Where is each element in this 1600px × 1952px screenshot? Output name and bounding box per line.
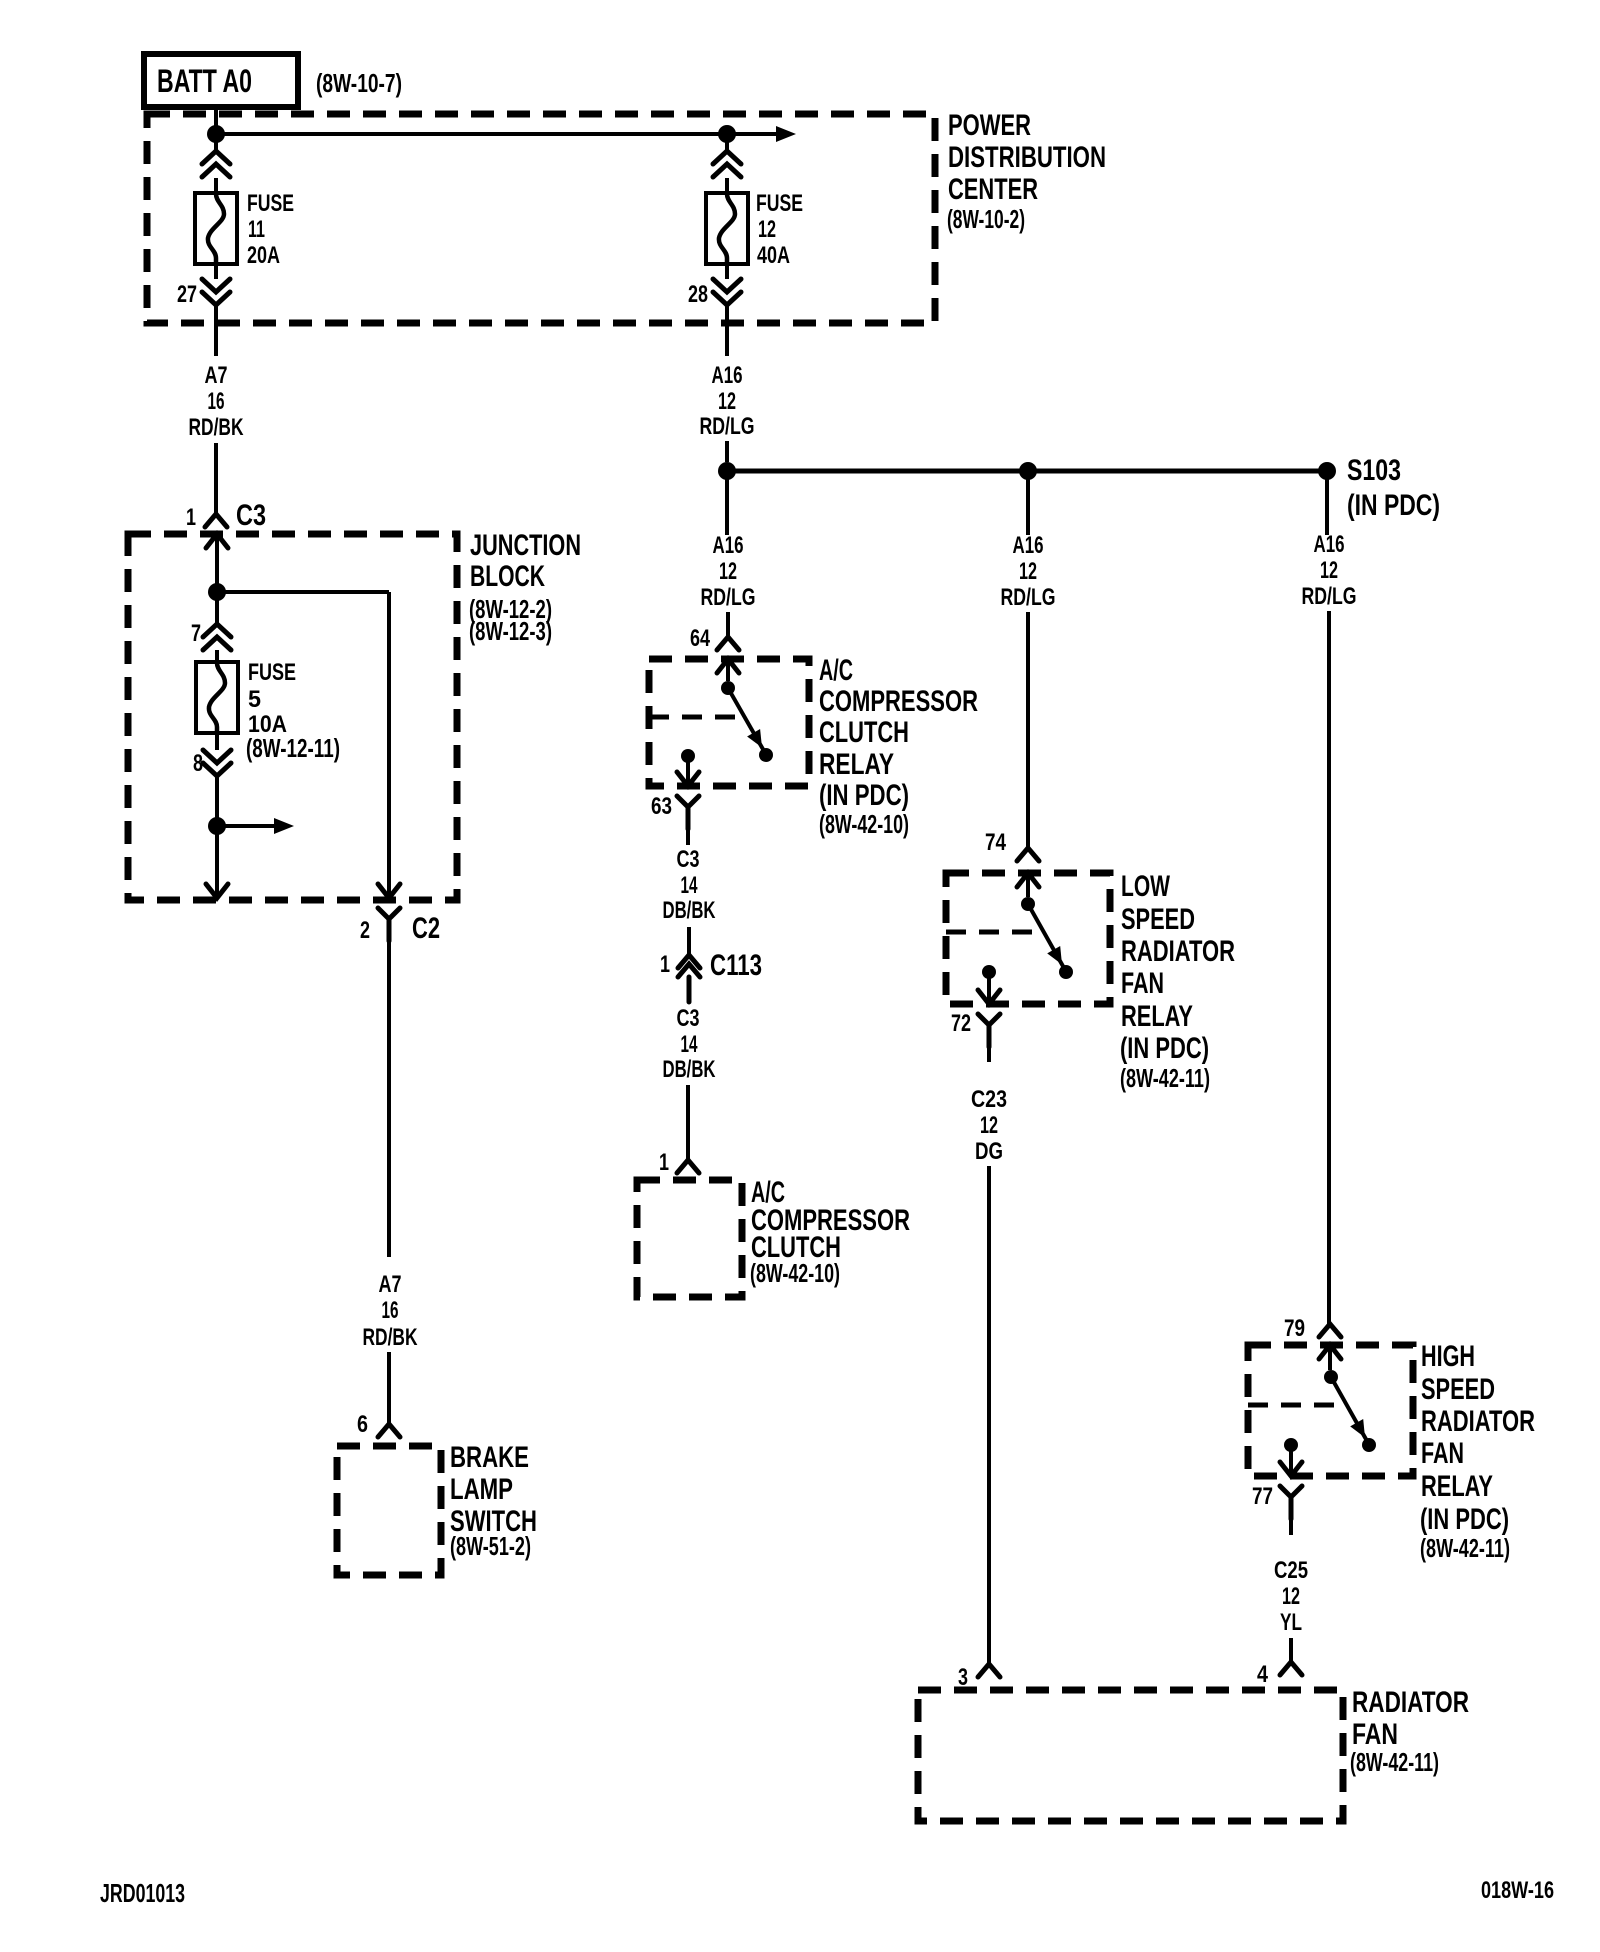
A/C compressor clutch box: [637, 1180, 742, 1297]
fuse F12 40A: [706, 193, 748, 264]
fuse F5 10A: [196, 662, 238, 733]
svg-text:SPEED: SPEED: [1121, 903, 1195, 936]
node junction feed to fuse 12: [718, 125, 736, 143]
pin 63 label: [651, 793, 672, 820]
pin 28 label: [688, 281, 708, 308]
relay pin 79 entry arrow: [1319, 1345, 1341, 1370]
node fused output tap: [208, 817, 226, 835]
svg-text:(8W-42-11): (8W-42-11): [1120, 1063, 1210, 1093]
svg-text:A7: A7: [205, 362, 228, 389]
svg-text:POWER: POWER: [948, 109, 1031, 142]
pin 27 label: [177, 281, 197, 308]
pin 7 label: [191, 620, 201, 647]
svg-text:RELAY: RELAY: [819, 748, 894, 781]
pin 7 chevrons: [203, 624, 231, 650]
wire feed to fuse 5: [215, 592, 219, 624]
svg-text:12: 12: [719, 558, 737, 585]
connector pin 72 half: [978, 1014, 1000, 1047]
svg-text:(8W-42-10): (8W-42-10): [819, 809, 909, 839]
svg-text:(8W-12-11): (8W-12-11): [246, 733, 340, 763]
svg-text:20A: 20A: [247, 242, 280, 269]
svg-text:FUSE: FUSE: [756, 190, 803, 217]
wire DG to radiator fan pin 3: [987, 1166, 991, 1664]
svg-text:HIGH: HIGH: [1421, 1340, 1475, 1373]
svg-text:A7: A7: [379, 1271, 402, 1298]
svg-text:12: 12: [758, 216, 776, 243]
svg-text:4: 4: [1257, 1661, 1269, 1688]
wire BATT A0 to PDC bus: [214, 107, 218, 134]
svg-text:DB/BK: DB/BK: [663, 1056, 716, 1083]
svg-text:COMPRESSOR: COMPRESSOR: [819, 685, 978, 718]
connector pin 63 half: [677, 796, 699, 829]
wire label C25 12 YL: [1274, 1557, 1308, 1636]
svg-text:5: 5: [248, 686, 261, 713]
svg-text:SPEED: SPEED: [1421, 1373, 1495, 1406]
svg-text:BLOCK: BLOCK: [470, 560, 545, 593]
radiator fan box: [918, 1690, 1343, 1821]
wire label A16 12 RD/LG branch 3: [1302, 531, 1357, 610]
svg-text:YL: YL: [1280, 1609, 1302, 1636]
high speed relay common contact: [1324, 1370, 1338, 1384]
wire to relay pin 74: [1026, 612, 1030, 848]
pin 2 label: [360, 917, 370, 944]
svg-text:A/C: A/C: [819, 654, 853, 687]
svg-text:40A: 40A: [757, 242, 790, 269]
svg-text:DISTRIBUTION: DISTRIBUTION: [948, 141, 1106, 174]
svg-text:LAMP: LAMP: [450, 1473, 513, 1506]
wire tap down to block edge: [206, 826, 228, 898]
junction block box: [128, 534, 457, 900]
svg-text:(8W-42-11): (8W-42-11): [1420, 1533, 1510, 1563]
svg-text:1: 1: [186, 504, 196, 531]
svg-text:(IN PDC): (IN PDC): [1420, 1503, 1509, 1536]
svg-text:C25: C25: [1274, 1557, 1308, 1584]
wire YL to radiator fan pin 4: [1289, 1638, 1293, 1662]
wire fuse 12 to pin 28: [725, 264, 729, 279]
svg-text:CENTER: CENTER: [948, 173, 1038, 206]
svg-text:RD/LG: RD/LG: [701, 584, 756, 611]
connector C3 label: [236, 499, 266, 532]
svg-text:RD/BK: RD/BK: [363, 1324, 418, 1351]
fuse 5 value label: [246, 659, 340, 763]
splice S103 label: [1347, 454, 1440, 522]
radiator fan pin 3 connector: [978, 1664, 1000, 1677]
wire label A16 12 RD/LG branch 2: [1001, 532, 1056, 611]
battery feed node BATT A0: [144, 54, 298, 107]
wire A16 to splice bus: [725, 441, 729, 462]
svg-text:28: 28: [688, 281, 708, 308]
connector C2 pin 2 half: [378, 908, 400, 941]
connector C2 label: [412, 912, 440, 945]
pin 6 label: [357, 1411, 368, 1438]
svg-text:1: 1: [659, 1149, 669, 1176]
svg-text:RELAY: RELAY: [1421, 1470, 1493, 1503]
low speed radiator fan relay box: [946, 873, 1110, 1004]
svg-text:(8W-42-10): (8W-42-10): [750, 1258, 840, 1288]
svg-text:1: 1: [660, 951, 670, 978]
high speed relay switch blade: [1331, 1377, 1367, 1441]
fuse F11 20A: [195, 193, 237, 264]
radiator fan pin 4 connector: [1280, 1662, 1302, 1675]
high speed radiator fan relay box: [1248, 1345, 1413, 1476]
svg-text:12: 12: [1019, 558, 1037, 585]
pin 64 label: [690, 625, 710, 652]
svg-text:C23: C23: [971, 1086, 1007, 1113]
relay pin 74 connector half: [1017, 848, 1039, 861]
wire chevron to fuse 11: [214, 178, 218, 193]
svg-text:(8W-51-2): (8W-51-2): [450, 1531, 531, 1561]
svg-text:77: 77: [1252, 1483, 1273, 1510]
high speed relay divider: [1248, 1403, 1342, 1408]
svg-text:14: 14: [681, 872, 698, 899]
svg-text:2: 2: [360, 917, 370, 944]
drawing number JRD01013: [100, 1878, 185, 1908]
pin 28 chevrons: [713, 279, 741, 305]
wire pin 27 out of PDC: [214, 305, 218, 356]
svg-text:FUSE: FUSE: [248, 659, 296, 686]
relay coil/contact divider: [649, 715, 747, 720]
svg-text:RELAY: RELAY: [1121, 1000, 1193, 1033]
svg-text:JRD01013: JRD01013: [100, 1878, 185, 1908]
svg-text:(8W-42-11): (8W-42-11): [1350, 1747, 1439, 1777]
wire fuse 11 to pin 27: [214, 264, 218, 279]
splice bus wire S103: [727, 469, 1327, 474]
wire pin 8 to internal node: [215, 776, 219, 826]
wire DB/BK to C113: [687, 927, 691, 955]
svg-text:RD/LG: RD/LG: [1001, 584, 1056, 611]
connector C113: [678, 955, 700, 1002]
low speed radiator fan relay label: [1120, 870, 1235, 1093]
svg-text:11: 11: [248, 216, 265, 243]
power distribution center box: [147, 114, 935, 323]
connector chevrons above fuse 12: [713, 151, 741, 177]
wire junction block internal branch: [217, 592, 389, 879]
low speed relay divider: [946, 930, 1034, 935]
pin 3 label: [958, 1664, 968, 1691]
pin 8 chevrons: [203, 750, 231, 776]
high speed relay NO contact: [1362, 1438, 1376, 1452]
svg-text:C3: C3: [677, 1005, 700, 1032]
node splice S103: [1318, 462, 1336, 480]
radiator fan label: [1350, 1686, 1469, 1777]
wire fuse 5 to pin 8: [215, 732, 219, 750]
svg-text:BATT A0: BATT A0: [157, 63, 252, 99]
svg-text:C113: C113: [710, 949, 762, 982]
svg-text:6: 6: [357, 1411, 368, 1438]
junction block entry arrow pin 1: [206, 534, 228, 592]
svg-text:BRAKE: BRAKE: [450, 1441, 529, 1474]
svg-text:018W-16: 018W-16: [1481, 1877, 1554, 1904]
relay output contact pin 63: [677, 749, 699, 786]
svg-text:RD/BK: RD/BK: [189, 414, 244, 441]
svg-text:74: 74: [985, 829, 1007, 856]
connector C3 pin 1 half: [205, 514, 227, 527]
svg-text:63: 63: [651, 793, 672, 820]
power distribution center label: [947, 109, 1106, 234]
svg-text:(8W-10-2): (8W-10-2): [947, 204, 1025, 234]
svg-text:C3: C3: [677, 846, 700, 873]
svg-text:(8W-12-3): (8W-12-3): [469, 616, 552, 646]
svg-text:S103: S103: [1347, 454, 1401, 487]
wire C2 to brake lamp switch: [387, 941, 391, 1257]
wire to relay pin 64: [726, 612, 730, 637]
svg-text:(IN PDC): (IN PDC): [1347, 489, 1440, 522]
wire label A16 12 RD/LG feed: [700, 362, 755, 440]
svg-text:8: 8: [193, 750, 203, 777]
svg-text:FUSE: FUSE: [247, 190, 294, 217]
relay NO contact: [759, 748, 773, 762]
svg-text:16: 16: [208, 388, 225, 415]
pin 4 label: [1257, 1661, 1269, 1688]
svg-text:12: 12: [718, 388, 736, 415]
sheet number 018W-16: [1481, 1877, 1554, 1904]
brake lamp switch label: [450, 1441, 537, 1561]
svg-text:CLUTCH: CLUTCH: [819, 716, 909, 749]
svg-text:JUNCTION: JUNCTION: [470, 529, 581, 562]
wire bus to fuse 12: [725, 134, 729, 151]
svg-text:A16: A16: [712, 362, 743, 389]
brake lamp switch pin 6 connector: [378, 1424, 400, 1437]
low speed relay common contact: [1021, 897, 1035, 911]
pin 1 label: [186, 504, 196, 531]
svg-text:C2: C2: [412, 912, 440, 945]
pin 79 label: [1284, 1315, 1305, 1342]
svg-text:64: 64: [690, 625, 710, 652]
node junction of BATT feed: [207, 125, 225, 143]
node splice at low speed relay branch: [1019, 462, 1037, 480]
A/C clutch pin 1 connector: [677, 1160, 699, 1173]
wire internal tap arrow to other circuits: [217, 818, 294, 834]
node junction block feed split: [208, 583, 226, 601]
svg-text:12: 12: [1282, 1583, 1300, 1610]
wire chevron to fuse 12: [725, 178, 729, 193]
low speed relay switch blade: [1028, 904, 1064, 968]
pin 74 label: [985, 829, 1007, 856]
wire label A16 12 RD/LG branch 1: [701, 532, 756, 611]
wire splice to low speed relay branch: [1026, 471, 1030, 535]
svg-text:RD/LG: RD/LG: [700, 413, 755, 440]
svg-text:C3: C3: [236, 499, 266, 532]
svg-text:16: 16: [382, 1297, 399, 1324]
svg-text:79: 79: [1284, 1315, 1305, 1342]
connector C113 label: [710, 949, 762, 982]
low speed relay output pin 72: [978, 965, 1000, 1004]
svg-text:12: 12: [1320, 557, 1338, 584]
wire relay 63 to C113: [686, 829, 690, 845]
fuse 11 value label: [247, 190, 294, 269]
A/C compressor clutch relay label: [819, 654, 978, 839]
clutch pin 1 label: [659, 1149, 669, 1176]
svg-text:14: 14: [681, 1031, 698, 1058]
pin 72 label: [951, 1010, 971, 1037]
relay common contact: [721, 681, 735, 695]
wire PDC internal bus with arrow: [216, 126, 796, 142]
wire DB/BK to A/C clutch pin 1: [686, 1085, 690, 1160]
svg-text:(8W-10-7): (8W-10-7): [316, 68, 402, 98]
pin 77 label: [1252, 1483, 1273, 1510]
wire label C3 14 DB/BK lower: [663, 1005, 716, 1083]
wire A7 to connector C3: [214, 443, 218, 514]
wire chevron to fuse 5: [215, 650, 219, 662]
wire RD/BK to pin 6: [387, 1352, 391, 1424]
relay pin 64 entry arrow: [717, 659, 739, 681]
wire bus to fuse 11: [214, 134, 218, 151]
relay pin 79 connector half: [1319, 1324, 1341, 1337]
connector pin 77 half: [1280, 1486, 1302, 1519]
wire to relay pin 79: [1327, 611, 1331, 1324]
svg-text:DG: DG: [975, 1138, 1003, 1165]
wire label C23 12 DG: [971, 1086, 1007, 1165]
svg-text:FAN: FAN: [1121, 967, 1164, 1000]
wire relay 72 down: [987, 1047, 991, 1062]
svg-text:12: 12: [980, 1112, 998, 1139]
node splice at A/C relay branch: [718, 462, 736, 480]
svg-text:7: 7: [191, 620, 201, 647]
relay pin 74 entry arrow: [1017, 873, 1039, 897]
junction block exit arrow pin 2: [378, 850, 400, 898]
svg-text:RD/LG: RD/LG: [1302, 583, 1357, 610]
high speed radiator fan relay label: [1420, 1340, 1535, 1563]
junction block label: [469, 529, 581, 646]
svg-text:RADIATOR: RADIATOR: [1121, 935, 1235, 968]
reference (8W-10-7): [316, 68, 402, 98]
A/C compressor clutch label: [750, 1176, 910, 1288]
svg-text:27: 27: [177, 281, 197, 308]
pin 27 chevrons: [202, 279, 230, 305]
svg-text:A16: A16: [1013, 532, 1044, 559]
wire label A7 16 RD/BK: [189, 362, 244, 441]
svg-text:RADIATOR: RADIATOR: [1421, 1405, 1535, 1438]
pin 8 label: [193, 750, 203, 777]
svg-text:A16: A16: [1314, 531, 1345, 558]
high speed relay output pin 77: [1280, 1438, 1302, 1476]
relay pin 64 connector half: [717, 637, 739, 650]
wire pin 28 out of PDC: [725, 305, 729, 356]
svg-text:DB/BK: DB/BK: [663, 897, 716, 924]
wire splice S103 to high speed relay: [1325, 471, 1329, 535]
svg-text:RADIATOR: RADIATOR: [1352, 1686, 1469, 1719]
low speed relay NO contact: [1059, 965, 1073, 979]
fuse 12 value label: [756, 190, 803, 269]
svg-text:(IN PDC): (IN PDC): [1120, 1032, 1209, 1065]
wire splice to A/C relay branch: [725, 471, 729, 535]
svg-text:LOW: LOW: [1121, 870, 1170, 903]
connector chevrons above fuse 11: [202, 151, 230, 177]
wire label C3 14 DB/BK upper: [663, 846, 716, 924]
A/C compressor clutch relay box: [649, 659, 809, 786]
wire relay 77 down: [1289, 1519, 1293, 1535]
brake lamp switch box: [337, 1446, 441, 1575]
C113 pin 1 label: [660, 951, 670, 978]
svg-text:(IN PDC): (IN PDC): [819, 779, 909, 812]
svg-text:A16: A16: [713, 532, 744, 559]
svg-text:72: 72: [951, 1010, 971, 1037]
svg-text:FAN: FAN: [1421, 1437, 1464, 1470]
relay switch blade: [728, 688, 764, 751]
wire label A7 16 RD/BK lower: [363, 1271, 418, 1351]
